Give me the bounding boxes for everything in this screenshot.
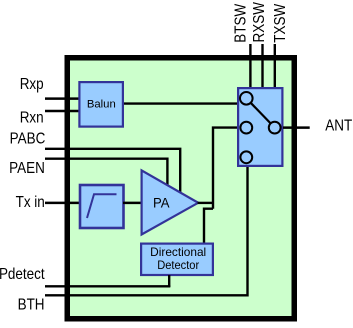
svg-text:PAEN: PAEN	[9, 160, 45, 177]
svg-text:Rxp: Rxp	[20, 76, 44, 93]
svg-text:Rxn: Rxn	[20, 110, 44, 127]
wire ANT output	[283, 126, 310, 129]
wire PA output riser to switch	[213, 128, 238, 209]
wire BTSW control line	[249, 44, 251, 88]
directional detector block	[141, 244, 213, 275]
wire PAEN to PA enable input	[45, 159, 167, 186]
wire Rxn to balun	[45, 110, 80, 113]
svg-text:TXSW: TXSW	[272, 4, 289, 43]
svg-text:Detector: Detector	[157, 259, 199, 272]
wire PA output	[198, 202, 214, 204]
wire tap to directional detector	[204, 209, 213, 244]
svg-text:Pdetect: Pdetect	[0, 266, 45, 283]
svg-text:Balun: Balun	[87, 99, 116, 111]
wire ramp to PA	[123, 202, 143, 205]
svg-text:ANT: ANT	[325, 118, 352, 135]
switch contact mid-right (ANT pole)	[269, 122, 281, 134]
wire RXSW control line	[261, 44, 263, 88]
wire TXSW control line	[274, 44, 276, 88]
svg-text:Tx in: Tx in	[16, 194, 45, 211]
wire BTH to switch	[45, 166, 248, 295]
switch contact top-left (RX)	[240, 92, 253, 105]
wire balun output to switch	[123, 102, 239, 104]
switch contact bottom-left (BT)	[240, 151, 252, 163]
svg-text:PABC: PABC	[10, 131, 46, 148]
antenna switch block	[238, 88, 282, 166]
svg-text:Directional: Directional	[150, 246, 206, 259]
switch contact mid-left (TX)	[240, 122, 252, 134]
svg-text:BTSW: BTSW	[233, 4, 250, 43]
chip outline (green block with thick black border)	[67, 58, 294, 319]
ramp symbol	[87, 194, 117, 218]
wire detector output to Pdetect	[168, 275, 170, 287]
svg-text:BTH: BTH	[18, 297, 45, 314]
op-amp PA (power amplifier triangle)	[142, 170, 199, 234]
wire Tx in to ramp block	[45, 202, 81, 205]
ramp limiter block	[80, 185, 124, 228]
wire Pdetect from directional detector	[45, 285, 170, 287]
switch arm (pole connecting RX contact to ANT contact)	[251, 103, 271, 124]
wire PABC to PA bias input	[45, 149, 180, 194]
svg-text:RXSW: RXSW	[251, 2, 268, 43]
balun block	[79, 82, 123, 127]
wire Rxp to balun	[45, 97, 80, 100]
svg-text:PA: PA	[153, 195, 170, 211]
